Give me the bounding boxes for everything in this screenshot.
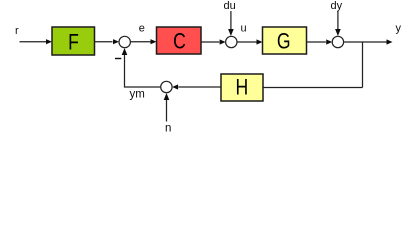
wire r to F [20, 41, 47, 43]
wire C to sum2 [201, 41, 219, 43]
svg-text:e: e [139, 22, 145, 34]
svg-text:y: y [396, 23, 402, 35]
wire sum1 to C [131, 41, 151, 43]
block F [52, 27, 95, 55]
svg-text:dy: dy [331, 0, 343, 12]
arrowhead into sum4 (left) [172, 84, 178, 89]
wire feedback to H [263, 87, 363, 89]
svg-text:n: n [165, 123, 171, 135]
arrowhead into sum2 [220, 39, 226, 44]
svg-text:F: F [68, 31, 79, 55]
summing junction sum4 [161, 81, 172, 92]
wire sum2 to G [237, 41, 256, 43]
svg-text:u: u [241, 23, 247, 35]
wire sum3 to y [344, 41, 387, 43]
arrowhead into sum1 [113, 39, 119, 44]
svg-text:G: G [277, 30, 291, 54]
svg-text:r: r [15, 25, 19, 37]
wire H to sum4 [178, 86, 221, 88]
svg-text:H: H [235, 76, 248, 100]
block G [263, 27, 307, 54]
wire up to sum1 [124, 52, 126, 88]
arrowhead into C [151, 39, 157, 44]
arrowhead down into sum2 [228, 29, 234, 36]
wire drop from output line [362, 42, 364, 88]
summing junction sum2 [226, 36, 237, 47]
wire sum4 to corner [124, 86, 160, 88]
wire F to sum1 [95, 41, 113, 43]
summing junction sum3 [332, 36, 343, 47]
arrowhead into F [46, 39, 52, 44]
block H [221, 74, 263, 101]
arrowhead at y [387, 39, 393, 44]
svg-text:C: C [173, 30, 186, 54]
block C [157, 27, 202, 54]
arrowhead up into sum1 [122, 48, 128, 55]
arrowhead into sum3 [326, 39, 332, 44]
wire dy down to sum3 [337, 11, 339, 30]
wire G to sum3 [307, 41, 326, 43]
arrowhead down into sum3 [335, 29, 341, 36]
svg-text:ym: ym [130, 88, 145, 100]
arrowhead into G [257, 39, 263, 44]
wire n up to sum4 [166, 99, 168, 122]
wire du down to sum2 [230, 11, 232, 30]
svg-text:du: du [224, 0, 236, 12]
arrowhead up into sum4 [164, 93, 170, 100]
minus sign at sum1 [115, 58, 121, 60]
summing junction sum1 [119, 36, 130, 47]
